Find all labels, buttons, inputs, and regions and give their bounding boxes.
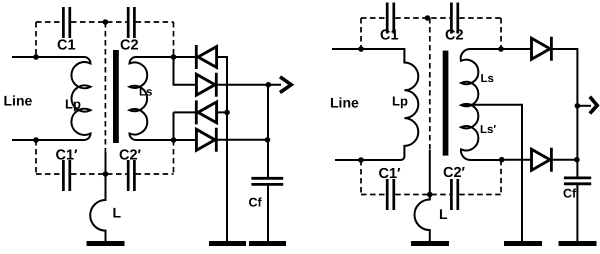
svg-text:C1: C1 [380, 28, 399, 44]
svg-text:Cf: Cf [249, 196, 263, 210]
svg-text:Line: Line [330, 95, 359, 111]
svg-text:C1′: C1′ [56, 148, 79, 164]
svg-text:Lp: Lp [65, 97, 81, 112]
svg-text:C2′: C2′ [119, 148, 142, 164]
svg-text:Ls: Ls [481, 73, 494, 85]
svg-text:L: L [439, 206, 448, 222]
svg-text:Ls: Ls [139, 87, 152, 99]
svg-text:Line: Line [4, 93, 33, 109]
svg-text:C2: C2 [445, 28, 464, 44]
svg-text:L: L [113, 205, 122, 221]
svg-text:C2: C2 [120, 38, 139, 54]
svg-text:Lp: Lp [392, 94, 408, 109]
svg-text:Cf: Cf [563, 187, 577, 201]
svg-text:C1: C1 [57, 38, 76, 54]
svg-text:C1′: C1′ [379, 166, 402, 182]
svg-text:C2′: C2′ [443, 165, 466, 181]
svg-text:Ls′: Ls′ [480, 124, 496, 136]
